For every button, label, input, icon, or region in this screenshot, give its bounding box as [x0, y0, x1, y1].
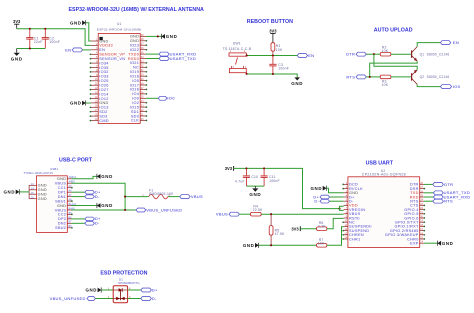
power flag 3V3 uart: [225, 166, 234, 171]
ic U1 ESP32-WROOM-32U: [91, 22, 146, 123]
wire 3V3 to R6: [300, 228, 316, 230]
net label D- esd: [141, 296, 157, 301]
capacitor C1: [26, 29, 42, 49]
svg-text:IO17: IO17: [130, 83, 139, 87]
svg-text:GND: GND: [38, 184, 47, 188]
svg-text:IO32: IO32: [99, 70, 108, 74]
junction C1 top: [29, 28, 31, 30]
wire R5 bottom rail: [259, 244, 317, 246]
wire to VDD pin: [340, 206, 344, 208]
svg-text:VBUS: VBUS: [216, 212, 228, 217]
svg-text:3V3: 3V3: [291, 226, 299, 231]
ic U2 CP2102N-A01-GQFN28: [344, 169, 424, 247]
svg-text:IO19: IO19: [130, 70, 139, 74]
svg-text:VBUS: VBUS: [55, 182, 67, 186]
wire TXD pin: [424, 192, 434, 194]
net label VBUS out: [180, 194, 203, 199]
no-connect dots U2: [342, 184, 425, 240]
wire fuse to VBUS label: [168, 196, 180, 198]
svg-text:IO12: IO12: [99, 97, 108, 101]
svg-text:GND: GND: [99, 101, 108, 105]
wire DTR to R2: [366, 53, 380, 55]
net label VBUS uart: [216, 212, 239, 217]
svg-text:DP2: DP2: [58, 217, 66, 221]
svg-text:GND: GND: [130, 35, 139, 39]
svg-text:ESD PROTECTION: ESD PROTECTION: [100, 271, 147, 277]
svg-text:GND: GND: [166, 34, 178, 39]
svg-text:3V3: 3V3: [225, 166, 233, 171]
svg-text:EN: EN: [308, 53, 314, 58]
svg-text:GND: GND: [38, 197, 47, 201]
capacitor C11: [261, 168, 280, 186]
svg-text:DTR: DTR: [346, 52, 355, 57]
svg-text:GND: GND: [38, 193, 47, 197]
svg-text:D-: D-: [95, 194, 100, 199]
svg-text:USB-C PORT: USB-C PORT: [59, 158, 93, 164]
svg-text:DN2: DN2: [58, 222, 66, 226]
svg-text:CC1: CC1: [58, 186, 66, 190]
svg-text:10K: 10K: [382, 83, 389, 87]
svg-text:SW1: SW1: [233, 42, 241, 46]
svg-text:S8050_C2146: S8050_C2146: [427, 75, 450, 79]
svg-text:VBUS: VBUS: [55, 208, 67, 212]
junction C2 top: [44, 28, 46, 30]
svg-text:GND: GND: [57, 204, 66, 208]
svg-text:IO21: IO21: [130, 61, 139, 65]
wire GND to D1: [101, 289, 113, 291]
wire GND B1A12: [72, 205, 97, 207]
svg-text:IO35: IO35: [99, 66, 108, 70]
net label USART_RXD uart: [433, 194, 470, 199]
net label EN: [65, 47, 82, 52]
net label DTR: [346, 52, 366, 57]
power flag 3V3 reboot: [269, 28, 277, 42]
svg-text:EN: EN: [453, 40, 459, 45]
wire GND to U1 GND pin: [86, 102, 91, 104]
svg-text:D-: D-: [152, 296, 157, 301]
junction R5 bottom: [270, 244, 272, 246]
junction VBUS bus bottom: [124, 209, 126, 211]
svg-text:CP2102N-A01-GQFN28: CP2102N-A01-GQFN28: [362, 173, 406, 177]
wire TXD0: [146, 53, 159, 55]
switch SW1 TS-1187A-C-C-B: [223, 42, 252, 73]
svg-text:GND: GND: [442, 241, 454, 246]
net label IO0 auto: [440, 84, 460, 89]
svg-text:SD2: SD2: [99, 110, 107, 114]
wire VBUS bus: [72, 183, 126, 210]
svg-text:IO13: IO13: [99, 106, 108, 110]
svg-text:CMD: CMD: [99, 119, 109, 123]
svg-text:EN: EN: [99, 48, 105, 52]
ground GND right of U1: [161, 34, 177, 39]
wire VBUS to R4: [239, 213, 250, 215]
svg-text:VDD33: VDD33: [99, 44, 113, 48]
svg-text:CLK: CLK: [131, 119, 139, 123]
junction C10 top: [245, 167, 247, 169]
svg-text:3V3: 3V3: [13, 19, 21, 24]
junction SW1 top: [246, 54, 248, 56]
svg-text:C10: C10: [251, 175, 258, 179]
svg-text:ESP32-WROOM-32U(16MB): ESP32-WROOM-32U(16MB): [97, 27, 142, 31]
svg-text:IO15: IO15: [130, 105, 139, 109]
wire DTR pin: [424, 183, 433, 185]
wire GND to U2: [326, 188, 343, 193]
wire D1 to D-: [128, 298, 141, 300]
resistor R2: [380, 45, 391, 56]
svg-text:TS-1187A-C-C-B: TS-1187A-C-C-B: [223, 47, 252, 51]
svg-text:D+: D+: [152, 287, 158, 292]
wire SW1 to EN: [247, 55, 298, 57]
junction C1 bottom: [29, 47, 31, 49]
svg-text:U1: U1: [117, 22, 122, 26]
svg-text:IO2: IO2: [132, 101, 139, 105]
wire R3 to Q2 base: [391, 76, 411, 78]
svg-text:IO4: IO4: [132, 92, 139, 96]
junction SW1 bottom: [246, 73, 248, 75]
svg-text:S8050_C2146: S8050_C2146: [427, 52, 450, 56]
ground GND top of U1: [70, 20, 86, 25]
junction RTS: [369, 76, 371, 78]
svg-text:100nF: 100nF: [269, 179, 280, 183]
svg-text:RXD0: RXD0: [128, 57, 139, 61]
wire GND to U1 pin1: [86, 23, 91, 41]
svg-text:ESP32-WROOM-32U (16MB) W/ EXTE: ESP32-WROOM-32U (16MB) W/ EXTERNAL ANTEN…: [69, 7, 205, 13]
svg-text:EN: EN: [65, 47, 71, 52]
net label D- bottom: [85, 221, 100, 226]
junction R1 bottom: [272, 54, 274, 56]
ground GND divider: [243, 243, 259, 248]
wire R4 to VBUS pin: [261, 213, 343, 215]
svg-text:NC: NC: [133, 66, 139, 70]
svg-text:SD1: SD1: [131, 110, 139, 114]
wire GND A1B12: [72, 176, 97, 178]
svg-text:GND: GND: [243, 243, 255, 248]
svg-text:GND: GND: [57, 177, 66, 181]
wire Q1 collector to EN: [417, 43, 440, 47]
svg-text:DP1: DP1: [58, 190, 66, 194]
wire EXP to GND: [424, 242, 438, 244]
svg-text:IO22: IO22: [130, 48, 139, 52]
svg-text:GND: GND: [70, 20, 82, 25]
svg-text:D-: D-: [95, 221, 100, 226]
wire DN1: [72, 196, 85, 198]
ground GND below C10 C11: [249, 186, 261, 197]
wire to VREGIN pin: [340, 209, 344, 211]
no-connect dots U1: [90, 40, 148, 122]
svg-text:SENSOR_VP: SENSOR_VP: [99, 53, 125, 57]
wire D1 to D+: [128, 289, 141, 291]
wire D- to U2: [330, 200, 344, 202]
svg-text:IO27: IO27: [99, 88, 108, 92]
net label DTR uart: [433, 182, 454, 187]
resistor R5: [269, 214, 285, 245]
wire 3V3 rail to VDD33: [17, 29, 91, 46]
svg-text:VBUS_UNFUSED: VBUS_UNFUSED: [146, 207, 182, 212]
svg-text:VBUS: VBUS: [191, 194, 203, 199]
net label RTS: [346, 74, 366, 79]
wire D+ to U2: [330, 196, 344, 198]
resistor R7: [317, 238, 327, 247]
wire U1 GND pin to flag: [146, 35, 161, 37]
svg-text:GND: GND: [4, 190, 16, 195]
svg-text:10K: 10K: [276, 48, 283, 52]
transistor Q2 S8050: [412, 70, 450, 85]
wire IO0: [146, 97, 158, 99]
junction C11 top: [263, 167, 265, 169]
ground GND bottom right U2: [438, 241, 454, 246]
resistor R6: [317, 221, 327, 230]
power flag 3V3 R6: [291, 226, 300, 231]
tvs diode D1 SP0503BAHTG: [108, 277, 140, 302]
ground GND left of U1: [70, 100, 86, 105]
svg-text:100nF: 100nF: [278, 67, 289, 71]
wire Q1 emitter to RTS net: [370, 61, 418, 77]
net label EN auto: [440, 40, 459, 45]
svg-text:2.2K: 2.2K: [318, 224, 326, 228]
net label IO0: [158, 96, 175, 101]
junction R5 top: [270, 213, 272, 215]
resistor R4: [250, 205, 263, 216]
svg-text:GND: GND: [70, 101, 82, 106]
svg-text:GND: GND: [101, 174, 113, 179]
wire R6 to RSTb: [327, 218, 344, 228]
net label USART_TXD uart: [433, 190, 470, 195]
svg-text:IO0: IO0: [167, 96, 175, 101]
svg-text:D-: D-: [314, 199, 319, 204]
wire VBUS_UNFUSED to D1: [95, 298, 113, 300]
svg-text:IO0: IO0: [453, 84, 461, 89]
net label VBUS_UNFUSED usb-c: [136, 207, 182, 212]
svg-text:RTS: RTS: [346, 74, 355, 79]
wire RXD pin: [424, 196, 434, 198]
net label D+ esd: [141, 287, 158, 292]
svg-text:GND: GND: [85, 288, 97, 293]
svg-text:IO26: IO26: [99, 84, 108, 88]
svg-text:EXP: EXP: [410, 242, 419, 246]
svg-text:CC2: CC2: [58, 213, 66, 217]
svg-text:SBU1: SBU1: [55, 199, 66, 203]
svg-text:DTR: DTR: [444, 182, 453, 187]
net label VBUS_UNFUSED esd: [50, 296, 96, 301]
ground GND esd: [85, 287, 101, 292]
wire RTS to R3: [366, 76, 380, 78]
wire SW1 bottom to GND: [247, 74, 298, 78]
ground GND usb-c pin B1A12: [97, 203, 113, 208]
resistor R3: [380, 75, 391, 87]
svg-text:SD0: SD0: [131, 114, 139, 118]
svg-text:SP0503BAHTG: SP0503BAHTG: [118, 281, 140, 285]
svg-text:IO25: IO25: [99, 79, 108, 83]
transistor Q1 S8050: [412, 47, 450, 62]
svg-text:IO23: IO23: [130, 44, 139, 48]
svg-text:100nF: 100nF: [49, 40, 60, 44]
svg-text:AUTO UPLOAD: AUTO UPLOAD: [374, 28, 413, 34]
wire Q2 emitter to DTR net: [374, 54, 417, 70]
connector USB1 TYPEC-304S-ACP16: [23, 167, 76, 232]
wire to fuse F1: [125, 196, 149, 198]
svg-text:22uF: 22uF: [34, 40, 43, 44]
svg-text:USB UART: USB UART: [366, 161, 394, 167]
wire 3V3 rail to VDD: [234, 168, 340, 208]
wire VBUS to VBUS_UNFUSED: [72, 209, 137, 211]
svg-text:GND: GND: [38, 188, 47, 192]
net label EN reboot: [297, 53, 314, 58]
wire EN to U1: [83, 49, 91, 51]
svg-text:10K: 10K: [382, 49, 389, 53]
svg-text:IO33: IO33: [99, 75, 108, 79]
svg-text:GND: GND: [130, 39, 139, 43]
no-connect dots USB1: [71, 187, 73, 229]
svg-text:TXD0: TXD0: [128, 52, 139, 56]
net label RTS uart: [433, 199, 453, 204]
svg-text:4.7uF: 4.7uF: [235, 180, 245, 184]
ground GND left of U2: [311, 186, 327, 191]
junction VDD branch: [338, 208, 340, 210]
svg-text:3V3: 3V3: [269, 28, 277, 33]
svg-text:REBOOT BUTTON: REBOOT BUTTON: [247, 19, 293, 25]
svg-text:GND: GND: [99, 39, 108, 43]
svg-text:Q1: Q1: [420, 52, 425, 56]
svg-text:SENSOR_VN: SENSOR_VN: [99, 57, 125, 61]
svg-text:22.5K: 22.5K: [253, 208, 263, 212]
fuse F1 SMD0805-100: [142, 189, 173, 199]
svg-text:Q2: Q2: [420, 75, 425, 79]
svg-text:GND: GND: [311, 186, 323, 191]
wire Q2 collector to IO0: [417, 84, 440, 86]
capacitor C10: [235, 168, 258, 186]
wire caps bottom: [246, 185, 264, 187]
svg-text:SBU2: SBU2: [55, 226, 66, 230]
ground GND below caps: [11, 49, 23, 62]
net label D- uart: [314, 199, 329, 204]
wire R2 to Q1 base: [391, 53, 411, 55]
junction DTR: [373, 53, 375, 55]
ground GND usb-c shield: [4, 189, 20, 194]
svg-text:TYPEC-304S-ACP16: TYPEC-304S-ACP16: [23, 171, 53, 175]
ground GND usb-c pin A1B12: [97, 174, 113, 179]
svg-text:GND: GND: [291, 81, 303, 86]
net label D+ bottom: [85, 216, 101, 221]
svg-text:IO16: IO16: [130, 88, 139, 92]
net label USART_RXD: [159, 51, 196, 56]
svg-text:RTS: RTS: [444, 199, 453, 204]
net label D+ uart: [313, 194, 329, 199]
svg-text:IO14: IO14: [99, 92, 108, 96]
svg-text:IO34: IO34: [99, 61, 108, 65]
junction GND wire: [157, 35, 159, 37]
svg-text:10K: 10K: [318, 241, 325, 245]
wire shield to GND: [19, 191, 29, 193]
svg-text:VBUS_UNFUSED: VBUS_UNFUSED: [50, 296, 86, 301]
svg-text:GND: GND: [249, 192, 261, 197]
svg-text:DN1: DN1: [58, 195, 66, 199]
wire DP2: [72, 218, 85, 220]
capacitor C3: [269, 56, 289, 75]
svg-text:GND: GND: [101, 203, 113, 208]
svg-text:CHR1: CHR1: [349, 237, 360, 241]
svg-text:47.5K: 47.5K: [275, 232, 285, 236]
wire cap ground rail: [17, 48, 46, 50]
wire R7 to SUSPENDb: [327, 227, 344, 246]
net label D- top: [85, 194, 100, 199]
resistor R1: [271, 43, 283, 56]
junction C3 bottom: [272, 73, 274, 75]
capacitor C2: [42, 29, 60, 49]
net label USART_TXD: [159, 56, 196, 61]
svg-text:IO18: IO18: [130, 74, 139, 78]
wire RXD0: [146, 58, 159, 60]
wire DN2: [72, 222, 85, 224]
svg-text:GND: GND: [11, 57, 23, 62]
svg-text:IO5: IO5: [132, 79, 139, 83]
svg-text:IO0: IO0: [132, 97, 139, 101]
wire RTS pin: [424, 200, 433, 202]
ground GND reboot: [291, 77, 303, 85]
power flag 3V3: [13, 19, 21, 29]
junction fuse tap: [124, 196, 126, 198]
wire DP1: [72, 191, 85, 193]
svg-text:SD3: SD3: [99, 114, 107, 118]
svg-text:USART_TXD: USART_TXD: [170, 56, 196, 61]
net label D+ top: [85, 190, 101, 195]
